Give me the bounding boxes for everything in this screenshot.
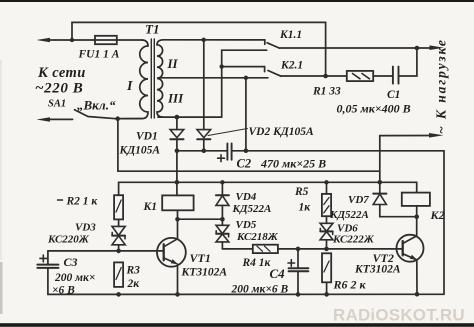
node: supply rail tap at K1 xyxy=(175,180,180,185)
wire: K1.1 blade to output 1 xyxy=(279,47,433,49)
svg-text:К1: К1 xyxy=(143,201,158,213)
wire: to K2.1 upper contact xyxy=(222,67,265,72)
node: VD1 cathode junction xyxy=(175,149,180,154)
svg-text:VD1: VD1 xyxy=(136,131,158,143)
label: to load (vertical) xyxy=(434,38,449,134)
node: R5 top xyxy=(324,180,328,184)
node: VT1 emitter bottom xyxy=(175,292,180,297)
node: middle tap junction xyxy=(244,76,248,80)
diode VD4 xyxy=(216,182,271,219)
node: K2 coil bottom xyxy=(414,214,419,219)
node: K2.1 blade junction xyxy=(323,74,328,79)
node: VD2 cathode xyxy=(202,148,207,153)
wire: VD7 anode to K2 coil bottom xyxy=(380,216,417,218)
diode VD2 xyxy=(197,130,211,151)
svg-text:RADiOSKOT.RU: RADiOSKOT.RU xyxy=(333,306,465,325)
label VD2 with leader xyxy=(208,126,314,138)
svg-text:VD4: VD4 xyxy=(236,191,257,203)
svg-text:VT1: VT1 xyxy=(190,251,211,265)
svg-text:КТ3102А: КТ3102А xyxy=(181,267,228,279)
svg-text:1к: 1к xyxy=(299,202,312,214)
node: junction before fuse xyxy=(70,38,74,42)
svg-text:Т1: Т1 xyxy=(145,22,159,37)
svg-text:FU1 1 А: FU1 1 А xyxy=(78,49,120,61)
transistor VT2 xyxy=(354,235,424,295)
zener VD5 xyxy=(216,219,279,249)
svg-text:R3: R3 xyxy=(126,265,141,277)
svg-text:2к: 2к xyxy=(127,278,141,290)
wire: secondary middle tap to K2.1 lower contact xyxy=(158,77,268,79)
node: VD4 top xyxy=(220,180,224,184)
wire: R1 to C1 xyxy=(373,75,392,77)
svg-text:КС218Ж: КС218Ж xyxy=(236,231,279,243)
wire: threshold base line to VT2 xyxy=(222,248,402,250)
svg-text:I: I xyxy=(126,79,133,94)
label: mains xyxy=(35,65,86,97)
fuse FU1 xyxy=(78,36,143,61)
node: R6 bottom xyxy=(324,292,329,297)
resistor R5 xyxy=(294,182,331,216)
relay contact K2.1 xyxy=(268,60,303,77)
relay contact K1.1 xyxy=(267,29,302,48)
node: C4 bottom xyxy=(296,292,301,297)
node: SA1 to primary junction xyxy=(115,116,120,121)
svg-text:VD5: VD5 xyxy=(236,219,257,231)
wire: winding III bottom xyxy=(158,116,222,118)
node: VD6 bottom / R6 top xyxy=(324,247,329,252)
wire: middle tap down to C2 right plate xyxy=(245,78,247,151)
node: R3 bottom xyxy=(116,292,121,297)
resistor R6 xyxy=(322,253,367,294)
svg-text:К сети: К сети xyxy=(37,65,86,81)
svg-text:КД522А: КД522А xyxy=(232,203,272,215)
node: VD4 cathode xyxy=(220,217,225,222)
capacitor C2 xyxy=(218,144,327,171)
svg-text:~220 В: ~220 В xyxy=(35,81,83,97)
svg-text:КТ3102А: КТ3102А xyxy=(354,264,401,276)
svg-text:КС220Ж: КС220Ж xyxy=(47,234,90,246)
svg-text:III: III xyxy=(167,91,184,106)
svg-text:КД522А: КД522А xyxy=(329,209,369,221)
svg-text:R5: R5 xyxy=(294,186,309,198)
svg-text:К2.1: К2.1 xyxy=(280,60,303,72)
node: VT1 base node xyxy=(116,249,121,254)
transformer T1 xyxy=(120,22,184,119)
node: III bottom tap xyxy=(175,115,180,120)
svg-text:0,05 мк×400 В: 0,05 мк×400 В xyxy=(337,102,411,116)
diode VD1 xyxy=(119,117,184,156)
node: C2 right junction xyxy=(244,148,249,153)
wire: +V rectifier rail with C2 xyxy=(177,151,444,294)
capacitor C3 xyxy=(37,251,95,297)
svg-text:VD7: VD7 xyxy=(348,194,369,206)
zener VD6 xyxy=(320,216,375,249)
svg-text:КС222Ж: КС222Ж xyxy=(332,234,375,246)
svg-text:SA1: SA1 xyxy=(48,99,66,110)
wire: mains top rail to relay contacts common xyxy=(72,22,326,76)
wire: output 2 riser xyxy=(379,136,381,183)
svg-text:R2 1 к: R2 1 к xyxy=(66,196,99,208)
svg-text:VD2 КД105А: VD2 КД105А xyxy=(249,126,315,138)
node: C4 top xyxy=(296,247,301,252)
svg-text:R1 33: R1 33 xyxy=(312,86,341,98)
zener VD3 xyxy=(47,219,125,251)
svg-text:С3: С3 xyxy=(64,255,78,269)
node: output 1 xyxy=(415,46,420,51)
transistor VT1 xyxy=(157,238,227,294)
svg-text:VD3: VD3 xyxy=(75,222,96,234)
svg-text:С4: С4 xyxy=(270,266,286,281)
wire: K2 coil bottom to VT2 collector xyxy=(416,206,418,236)
node: K2.1 upper feed tap xyxy=(220,64,224,68)
relay coil K1 xyxy=(143,195,194,213)
svg-text:~ К нагрузке: ~ К нагрузке xyxy=(434,38,449,134)
wire: II top down to VD2 xyxy=(203,40,205,130)
wire: K2.1 blade to R1 xyxy=(281,75,347,77)
resistor R1 xyxy=(312,71,373,98)
switch SA1 xyxy=(37,98,118,122)
svg-text:С2: С2 xyxy=(237,157,252,171)
svg-text:К1.1: К1.1 xyxy=(279,29,302,41)
resistor R2 xyxy=(58,195,124,219)
watermark xyxy=(333,306,465,325)
relay coil K2 xyxy=(402,193,445,222)
capacitor C1 xyxy=(337,67,411,116)
arrow: output to load top xyxy=(430,45,445,50)
svg-text:„Вкл.“: „Вкл.“ xyxy=(77,98,116,113)
wire: K1 bottom to VD4 cathode xyxy=(178,218,223,220)
svg-text:С1: С1 xyxy=(387,89,400,101)
wire: winding II top to K1.1 upper contact xyxy=(163,40,265,45)
node: VT2 emitter bottom xyxy=(415,292,420,297)
wire: supply rail (+V) xyxy=(119,182,417,195)
svg-text:R4 1к: R4 1к xyxy=(242,257,272,269)
resistor R3 xyxy=(114,262,140,290)
wire: III bottom up to K1.1 lower contact xyxy=(222,50,267,117)
diode VD7 xyxy=(329,182,386,221)
node: II top tap xyxy=(202,38,206,42)
arrow: mains input top xyxy=(37,38,96,42)
svg-text:II: II xyxy=(167,56,179,71)
wire: C2 plus down to supply rail and K1 coil xyxy=(176,151,178,196)
svg-text:R6 2 к: R6 2 к xyxy=(333,278,367,292)
wire: SA1 junction to primary bottom xyxy=(118,118,142,120)
resistor R4 xyxy=(242,245,278,269)
arrow: output to load bottom xyxy=(380,133,444,138)
wire: neutral drop and rail to output xyxy=(118,119,380,172)
wire: K1 coil bottom to VT1 collector xyxy=(177,210,179,238)
node: VD7 top xyxy=(378,180,383,185)
wire: C1 up to output node xyxy=(399,48,417,76)
svg-text:К2: К2 xyxy=(430,208,445,222)
svg-text:200 мк×: 200 мк× xyxy=(54,272,95,284)
svg-text:470 мк×25 В: 470 мк×25 В xyxy=(260,157,326,171)
capacitor C4 xyxy=(231,249,309,296)
svg-text:КД105А: КД105А xyxy=(119,145,161,157)
wire: base line C3 to VT1 xyxy=(48,250,164,252)
wire: bottom common rail xyxy=(48,293,444,295)
node: K1 coil bottom xyxy=(175,217,180,222)
